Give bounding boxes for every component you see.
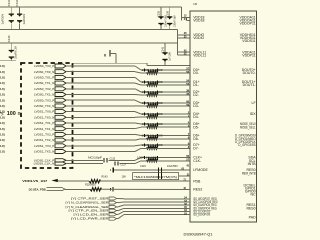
svg-text:DOUT1-: DOUT1- <box>243 83 257 87</box>
wire LVDS0_CLK_P <box>66 159 103 161</box>
svg-text:VDDL11: VDDL11 <box>193 53 206 57</box>
svg-text:10K: 10K <box>122 175 127 178</box>
svg-text:NC: NC <box>251 193 257 197</box>
svg-text:VDDIO: VDDIO <box>193 36 204 40</box>
capacitor C140 <box>10 43 12 50</box>
svg-text:57: 57 <box>186 158 189 162</box>
wire CTP_RST_SER <box>117 198 119 200</box>
svg-text:100nF/16V: 100nF/16V <box>173 15 176 27</box>
wire L1 to pin 31 <box>179 175 190 177</box>
svg-text:*y:: *y: <box>0 111 4 115</box>
wire RES2 <box>65 188 90 190</box>
wire shield gnd <box>73 62 148 64</box>
svg-text:LF: LF <box>252 101 256 105</box>
wire LVDS1_TX1_P <box>66 122 135 124</box>
svg-text:R143: R143 <box>102 175 109 178</box>
svg-text:DOUT0-: DOUT0- <box>243 71 257 75</box>
svg-text:VDDOP11: VDDOP11 <box>240 22 256 26</box>
svg-text:NC/10pF: NC/10pF <box>88 156 103 159</box>
svg-text:[Y] SEA_PDB: [Y] SEA_PDB <box>29 188 46 192</box>
svg-text:I2S_DD/GPIO0: I2S_DD/GPIO0 <box>193 213 210 217</box>
svg-text:1uF/10V: 1uF/10V <box>22 14 26 25</box>
capacitor C134 <box>19 7 21 14</box>
wire LCD_EN_SER <box>117 213 119 215</box>
svg-text:LFMODE: LFMODE <box>193 168 208 172</box>
svg-text:1.8]: 1.8] <box>0 64 5 68</box>
svg-text:54: 54 <box>186 79 189 83</box>
svg-text:MODE_SEL1: MODE_SEL1 <box>240 125 256 129</box>
svg-text:PAD: PAD <box>249 216 256 220</box>
IC U6 DS90UB947-Q1 <box>190 11 257 222</box>
capacitor C135 <box>160 7 162 16</box>
wire VDD18 to pins <box>181 7 183 20</box>
svg-text:56: 56 <box>186 70 189 74</box>
capacitor C133 <box>10 7 12 14</box>
svg-text:1.8]: 1.8] <box>0 98 5 102</box>
wire LVDS0_TX3_P <box>66 99 135 101</box>
svg-text:D3-: D3- <box>193 104 199 108</box>
svg-text:VDDP11: VDDP11 <box>242 53 255 57</box>
svg-text:LVDS0_TX3_P: LVDS0_TX3_P <box>34 98 54 102</box>
svg-text:D_GPIO3/SS: D_GPIO3/SS <box>238 143 256 147</box>
svg-text:C117: C117 <box>121 163 127 166</box>
svg-text:D7-: D7- <box>193 146 199 150</box>
svg-text:PDB: PDB <box>193 179 201 183</box>
svg-text:1.8]: 1.8] <box>0 138 5 142</box>
chip right pin names <box>235 16 256 220</box>
wire LVDS0_TX2_P <box>66 88 135 90</box>
svg-text:1.8]: 1.8] <box>0 70 5 74</box>
wire VDD18 rail <box>0 6 182 8</box>
wire LVDS0_TX2_N <box>66 94 135 96</box>
wire LVDS1_TX0_N <box>66 116 135 118</box>
wire LVDS1_TX2_N <box>66 139 135 141</box>
capacitor C117 NC/10pF <box>114 162 116 166</box>
svg-text:LVDS1_TX0_N: LVDS1_TX0_N <box>34 115 54 119</box>
ground LF <box>110 169 112 171</box>
svg-text:LVDS1_TX2_P: LVDS1_TX2_P <box>34 133 54 137</box>
svg-text:D6-: D6- <box>193 137 199 141</box>
wire N_CLEARSINGL_SER <box>117 202 119 204</box>
svg-text:1.8]: 1.8] <box>0 150 5 154</box>
svg-text:VDDS11: VDDS11 <box>242 39 255 43</box>
inductor L1 MLF1608 <box>133 173 179 180</box>
svg-text:C116: C116 <box>140 165 146 168</box>
wire LVDS0_TX1_N <box>66 82 135 84</box>
svg-text:U6: U6 <box>193 2 197 6</box>
svg-text:LVDS1_TX3_P: LVDS1_TX3_P <box>34 144 54 148</box>
svg-text:LVDS0_TX3_N: LVDS0_TX3_N <box>34 104 54 108</box>
svg-text:33uF/6.3V: 33uF/6.3V <box>13 46 17 59</box>
svg-text:C133: C133 <box>7 0 11 6</box>
svg-text:LVDS0_TX0_P: LVDS0_TX0_P <box>34 64 54 68</box>
wire LVDS0_TX3_N <box>66 105 135 107</box>
wire PDB <box>58 180 89 182</box>
wire LFMODE <box>114 169 191 171</box>
svg-text:DS90UB947-Q1: DS90UB947-Q1 <box>184 233 213 237</box>
svg-text:1.8]: 1.8] <box>0 81 5 85</box>
wire LCD_PWR_SER <box>117 218 119 220</box>
resistor RC0 100R <box>144 157 154 159</box>
svg-text:LVDS1_TX0_P: LVDS1_TX0_P <box>34 110 54 114</box>
svg-text:59: 59 <box>186 103 189 107</box>
svg-text:100: 100 <box>7 111 16 117</box>
wire LVDS1_TX0_P <box>66 111 135 113</box>
svg-text:LVDS0_TX2_N: LVDS0_TX2_N <box>34 93 54 97</box>
svg-text:D2-: D2- <box>193 93 199 97</box>
svg-text:*MLF1608DR4R7M(C5): *MLF1608DR4R7M(C5) <box>134 176 177 179</box>
ground C140 <box>0 60 16 62</box>
svg-text:D5-: D5- <box>193 125 199 129</box>
svg-text:35: 35 <box>186 92 189 96</box>
svg-text:LVDS1_TX1_N: LVDS1_TX1_N <box>34 127 54 131</box>
svg-text:C132: C132 <box>110 157 116 160</box>
svg-text:1.8]: 1.8] <box>0 87 5 91</box>
wire CTP_P_EN_SER <box>117 210 119 212</box>
svg-text:C134: C134 <box>15 0 19 6</box>
svg-text:C141: C141 <box>162 46 165 53</box>
svg-text:LVDS0_TX1_N: LVDS0_TX1_N <box>34 81 54 85</box>
capacitor C141 <box>164 43 166 52</box>
svg-text:VDD18: VDD18 <box>193 19 204 23</box>
svg-text:36: 36 <box>186 89 189 93</box>
svg-text:C140: C140 <box>7 35 11 42</box>
wire LVDS0_TX1_P <box>66 76 135 78</box>
svg-text:C135: C135 <box>158 10 161 17</box>
svg-text:1.8]: 1.8] <box>0 127 5 131</box>
shield box dashed <box>21 63 73 168</box>
svg-text:D0-: D0- <box>193 71 199 75</box>
wire VDDL11 rail <box>0 42 178 44</box>
svg-text:10nF/50V: 10nF/50V <box>167 165 178 168</box>
wire VDDIO rail <box>0 29 178 31</box>
svg-text:LVDS0_TX2_P: LVDS0_TX2_P <box>34 87 54 91</box>
wire VDDL11 pins <box>178 51 191 53</box>
svg-text:VDDLVS_947: VDDLVS_947 <box>22 179 48 183</box>
svg-text:60: 60 <box>186 100 189 104</box>
resistor RC1 100R <box>144 160 154 162</box>
svg-text:1.8]: 1.8] <box>0 115 5 119</box>
svg-text:1uF/16V: 1uF/16V <box>169 52 172 61</box>
wire LVDS0_TX0_P <box>66 65 135 67</box>
wire LVDS0_CLK_N <box>66 163 103 165</box>
svg-text:C136: C136 <box>166 10 169 17</box>
svg-text:1.8]: 1.8] <box>0 133 5 137</box>
svg-text:1uF/10V: 1uF/10V <box>1 14 5 25</box>
svg-text:LVDS0_TX0_N: LVDS0_TX0_N <box>34 70 54 74</box>
capacitor C136 <box>169 7 171 16</box>
svg-text:56: 56 <box>186 154 189 158</box>
svg-text:LVDS1_TX3_N: LVDS1_TX3_N <box>34 150 54 154</box>
wire LVDS0_TX0_N <box>66 71 135 73</box>
svg-text:1.8]: 1.8] <box>0 93 5 97</box>
wire N_CLEARSNAGL_SER <box>117 206 119 208</box>
svg-text:LVDS1_TX1_P: LVDS1_TX1_P <box>34 121 54 125</box>
svg-text:D4-: D4- <box>193 115 199 119</box>
svg-text:D1-: D1- <box>193 83 199 87</box>
svg-text:1.8]: 1.8] <box>0 104 5 108</box>
svg-text:INTB: INTB <box>248 162 257 166</box>
wire VDDIO feed <box>177 30 179 56</box>
wire LVDS1_TX1_N <box>66 128 135 130</box>
svg-text:57: 57 <box>186 67 189 71</box>
ground PDB <box>110 188 112 190</box>
svg-text:LVDS0_CLK_N: LVDS0_CLK_N <box>34 162 55 166</box>
svg-text:[Y] LCD_PWR_SER: [Y] LCD_PWR_SER <box>71 217 109 221</box>
svg-text:53: 53 <box>186 82 189 86</box>
svg-text:REM_INTB: REM_INTB <box>242 171 256 175</box>
svg-text:Ω: Ω <box>18 111 21 115</box>
ground shield <box>104 54 106 57</box>
wire LVDS1_TX3_P <box>66 145 135 147</box>
svg-text:LVDS1_TX2_N: LVDS1_TX2_N <box>34 138 54 142</box>
wire LVDS1_TX2_P <box>66 133 135 135</box>
svg-text:1.8]: 1.8] <box>0 121 5 125</box>
svg-text:IDX: IDX <box>250 112 257 116</box>
svg-text:CLK-: CLK- <box>193 159 202 163</box>
svg-text:RES0: RES0 <box>246 206 255 210</box>
svg-text:1.8]: 1.8] <box>0 144 5 148</box>
svg-text:RES2: RES2 <box>193 188 202 192</box>
svg-text:1.8]: 1.8] <box>0 76 5 80</box>
svg-text:R226RES: R226RES <box>85 184 96 187</box>
svg-text:LVDS0_TX1_P: LVDS0_TX1_P <box>34 76 54 80</box>
wire LVDS1_TX3_N <box>66 151 135 153</box>
chip left pin names <box>193 16 218 217</box>
